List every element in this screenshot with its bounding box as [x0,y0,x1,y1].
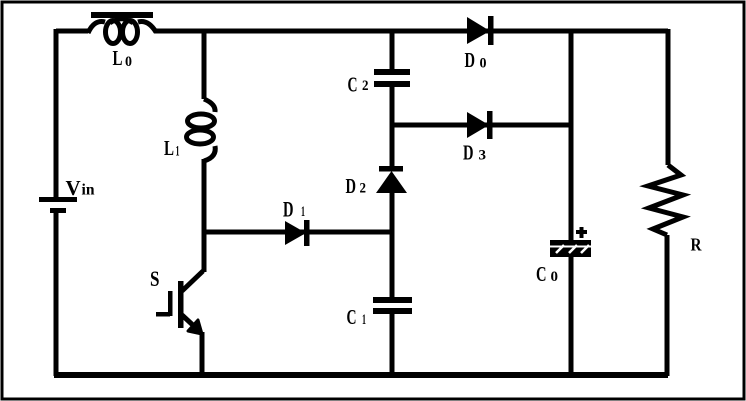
svg-text:R: R [691,235,702,255]
wire bottom horizontal [54,372,668,378]
svg-text:1: 1 [362,312,366,328]
svg-text:0: 0 [480,56,487,72]
wire D2 to C1 vertical [390,192,395,298]
wire top horizontal [154,29,668,34]
resistor R [648,165,702,255]
wire right vertical top [666,29,671,165]
inductor L0 [88,12,156,70]
svg-text:3: 3 [479,148,487,164]
wire D1 horizontal [204,230,392,235]
svg-text:0: 0 [551,269,559,285]
svg-text:D: D [463,141,474,165]
svg-text:C: C [347,305,357,329]
svg-text:D: D [346,174,357,198]
wire L1 branch vertical upper [202,29,207,99]
wire left vertical lower [54,213,59,376]
svg-text:2: 2 [360,181,367,197]
capacitor C2 [348,69,411,97]
svg-text:2: 2 [362,78,369,94]
svg-text:0: 0 [125,54,132,70]
svg-text:D: D [283,197,294,222]
wire C0 vertical top [569,29,574,240]
diode D2 [346,166,408,198]
svg-text:D: D [465,48,476,72]
wire C2 to D2 vertical [390,87,395,168]
svg-text:C: C [348,73,358,97]
diode D0 [465,16,494,72]
capacitor C0 [536,227,591,286]
wire right vertical bottom [665,235,670,376]
svg-text:V: V [66,176,81,200]
svg-text:1: 1 [176,144,180,160]
capacitor C1 [347,297,413,329]
svg-text:in: in [82,182,95,199]
svg-text:L: L [113,46,123,70]
wire D3 horizontal [392,123,571,128]
svg-text:1: 1 [301,204,305,220]
wire emitter vertical [200,332,205,376]
wire top left horizontal [56,29,88,34]
diode D1 [283,197,310,247]
transistor S (IGBT switch) [150,266,203,334]
voltage source Vin [39,176,95,213]
svg-text:L: L [164,136,174,160]
wire C2 vertical top [390,29,395,69]
wire L1 to collector vertical [202,159,207,272]
diode D3 [463,111,493,165]
inductor L1 [164,99,215,161]
wire left vertical [54,29,59,197]
wire C1 vertical bottom [390,314,395,376]
wire C0 vertical bottom [569,257,574,376]
svg-text:C: C [536,262,547,286]
svg-text:S: S [150,266,160,291]
